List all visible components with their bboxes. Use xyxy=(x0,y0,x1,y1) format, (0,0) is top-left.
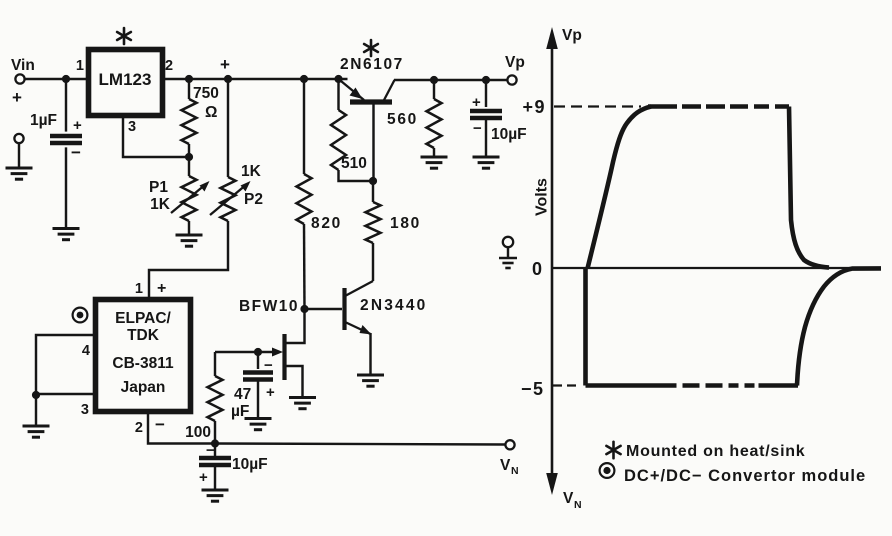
svg-text:+: + xyxy=(157,280,166,297)
svg-text:DC+/DC− Convertor module: DC+/DC− Convertor module xyxy=(624,467,866,485)
module pin 2 label xyxy=(135,415,165,436)
svg-text:+9: +9 xyxy=(522,97,546,117)
wire rail from pin2 xyxy=(164,78,348,80)
svg-text:+: + xyxy=(199,469,208,486)
waveform negative rise xyxy=(797,268,881,385)
transistor Q1 2N6107 xyxy=(339,56,404,102)
resistor 180 xyxy=(366,181,421,281)
svg-text:2: 2 xyxy=(135,420,143,436)
svg-text:Vin: Vin xyxy=(11,57,35,74)
svg-text:Mounted on heat/sink: Mounted on heat/sink xyxy=(626,443,805,460)
svg-text:−: − xyxy=(155,415,165,434)
svg-text:10µF: 10µF xyxy=(491,126,527,143)
legend asterisk xyxy=(606,442,620,458)
transistor Q2 2N3440 xyxy=(345,281,428,335)
svg-text:2N3440: 2N3440 xyxy=(360,297,428,314)
resistor 100 xyxy=(185,352,222,444)
svg-text:1: 1 xyxy=(76,58,84,74)
svg-text:−: − xyxy=(71,143,81,162)
wire pin3 to divider xyxy=(123,118,189,158)
resistor 750 ohm xyxy=(182,79,219,157)
ground under P1 xyxy=(176,235,203,246)
heat-sink asterisk for U1 xyxy=(117,28,131,44)
svg-text:BFW10: BFW10 xyxy=(239,298,299,315)
wire input rail xyxy=(25,78,88,80)
svg-text:+: + xyxy=(73,117,82,134)
node rail-820 xyxy=(300,75,308,83)
waveform negative drop xyxy=(583,268,588,386)
wire module pin2 xyxy=(148,411,216,444)
graph dashed level -5 xyxy=(553,384,576,386)
wire to ground module xyxy=(35,395,37,426)
svg-text:Vp: Vp xyxy=(562,27,582,44)
resistor 560 xyxy=(387,80,441,157)
convertor bullseye mark xyxy=(73,308,88,323)
graph dashed level +9 xyxy=(554,105,641,107)
legend bullseye xyxy=(600,463,615,478)
svg-text:100: 100 xyxy=(185,424,211,441)
wire drain xyxy=(286,310,305,343)
svg-text:2N6107: 2N6107 xyxy=(340,56,404,73)
pin 1 label xyxy=(76,58,84,74)
svg-text:10µF: 10µF xyxy=(232,456,268,473)
svg-text:TDK: TDK xyxy=(127,327,160,344)
node pin3-pin4 xyxy=(32,391,40,399)
svg-text:+: + xyxy=(220,55,230,74)
svg-text:P2: P2 xyxy=(244,191,263,208)
pin 2 label xyxy=(165,58,173,74)
legend heat sink text xyxy=(626,443,805,460)
node rail-emitter xyxy=(334,75,342,83)
svg-text:820: 820 xyxy=(311,215,342,232)
capacitor C1 1uF xyxy=(30,112,82,162)
regulator U1 LM123 xyxy=(89,50,163,116)
wire gate line xyxy=(215,351,276,353)
svg-text:+: + xyxy=(266,384,275,401)
wire collector rail xyxy=(394,79,507,81)
svg-text:4: 4 xyxy=(82,343,90,359)
node rail-P2 xyxy=(224,75,232,83)
svg-text:−5: −5 xyxy=(521,379,545,399)
svg-text:CB-3811: CB-3811 xyxy=(112,355,174,372)
node input junction xyxy=(62,75,70,83)
waveform positive rise xyxy=(588,107,652,269)
graph label +9 xyxy=(522,97,546,117)
node base junction xyxy=(369,177,377,185)
graph vertical axis xyxy=(546,27,558,495)
resistor 510 xyxy=(331,79,372,181)
svg-text:V: V xyxy=(500,457,511,474)
wire module pin3 xyxy=(36,393,98,395)
wire base lead Q1 xyxy=(372,104,374,181)
module pin 3 label xyxy=(81,402,89,418)
waveform positive fall xyxy=(789,107,829,268)
svg-text:180: 180 xyxy=(390,215,421,232)
potentiometer P1 1K xyxy=(149,157,209,235)
label plus rail xyxy=(220,55,230,74)
node rail-560 xyxy=(430,76,438,84)
svg-text:2: 2 xyxy=(165,58,173,74)
graph label Volts xyxy=(534,178,551,216)
node VN junction xyxy=(211,439,219,447)
node rail-750 xyxy=(185,75,193,83)
ground chassis xyxy=(6,168,33,179)
node rail-10uF xyxy=(482,76,490,84)
svg-text:+: + xyxy=(472,94,481,111)
wire negative rail VN xyxy=(215,444,506,445)
ground under C2 xyxy=(473,157,500,168)
svg-text:Volts: Volts xyxy=(534,178,551,216)
ground common xyxy=(499,258,517,268)
ground under C4 xyxy=(202,490,229,501)
module pin 4 label xyxy=(82,343,90,359)
wire P2 to module pin1 xyxy=(149,221,228,298)
svg-text:3: 3 xyxy=(81,402,89,418)
svg-text:ELPAC/: ELPAC/ xyxy=(115,310,171,327)
svg-text:3: 3 xyxy=(128,119,136,135)
pin 3 label xyxy=(128,119,136,135)
ground under C1 xyxy=(53,229,80,240)
ground under C3 xyxy=(245,419,272,430)
capacitor C3 47uF xyxy=(231,352,275,420)
svg-text:Ω: Ω xyxy=(205,104,217,121)
svg-text:Vp: Vp xyxy=(505,54,525,71)
node 750-P1 xyxy=(185,153,193,161)
terminal chassis ground xyxy=(14,134,23,168)
waveform negative flat bottom xyxy=(586,383,799,388)
graph label 0 xyxy=(532,259,542,279)
svg-text:560: 560 xyxy=(387,111,418,128)
graph axis label VN bottom xyxy=(563,490,582,511)
capacitor C4 10uF xyxy=(199,442,268,490)
wire source xyxy=(286,366,303,397)
svg-text:0: 0 xyxy=(532,259,542,279)
svg-text:750: 750 xyxy=(193,85,219,102)
terminal VN xyxy=(500,440,519,477)
potentiometer P2 1K xyxy=(210,79,263,221)
svg-text:P1: P1 xyxy=(149,179,168,196)
svg-text:1µF: 1µF xyxy=(30,112,57,129)
svg-text:LM123: LM123 xyxy=(99,70,152,89)
svg-text:+: + xyxy=(12,88,22,107)
node 47uF junction xyxy=(254,348,262,356)
svg-text:−: − xyxy=(264,357,273,374)
node drain junction xyxy=(300,305,308,313)
svg-text:1K: 1K xyxy=(150,196,171,213)
terminal common xyxy=(503,237,513,258)
svg-text:V: V xyxy=(563,490,574,507)
graph label -5 xyxy=(521,379,545,399)
graph horizontal axis xyxy=(552,267,881,269)
svg-text:Japan: Japan xyxy=(121,379,166,396)
resistor 820 xyxy=(297,79,342,310)
ground under source xyxy=(289,398,316,409)
svg-text:47: 47 xyxy=(234,386,251,403)
module M1 ELPAC/TDK CB-3811 xyxy=(96,300,191,412)
svg-text:−: − xyxy=(473,120,482,137)
waveform positive flat top xyxy=(648,104,789,109)
ground module xyxy=(23,426,50,437)
svg-text:N: N xyxy=(511,465,519,477)
svg-text:510: 510 xyxy=(341,155,367,172)
svg-text:1K: 1K xyxy=(241,163,262,180)
capacitor C1 1uF leads xyxy=(65,79,67,228)
transistor Q3 BFW10 xyxy=(239,298,299,380)
ground under 560 xyxy=(421,157,448,168)
ground under Q2 xyxy=(357,375,384,386)
terminal Vp xyxy=(505,54,525,85)
legend convertor text xyxy=(624,467,866,485)
wire base 2N3440 xyxy=(305,308,343,310)
svg-text:−: − xyxy=(206,442,215,459)
capacitor C2 10uF xyxy=(470,80,527,157)
svg-text:N: N xyxy=(574,499,582,511)
wire emitter down xyxy=(369,333,371,375)
wire module pin4 xyxy=(36,335,98,396)
terminal Vin xyxy=(11,57,35,107)
svg-text:1: 1 xyxy=(135,281,143,297)
heat-sink asterisk for Q1 xyxy=(364,40,378,56)
graph axis label Vp xyxy=(562,27,582,44)
module pin 1 label xyxy=(135,280,166,297)
